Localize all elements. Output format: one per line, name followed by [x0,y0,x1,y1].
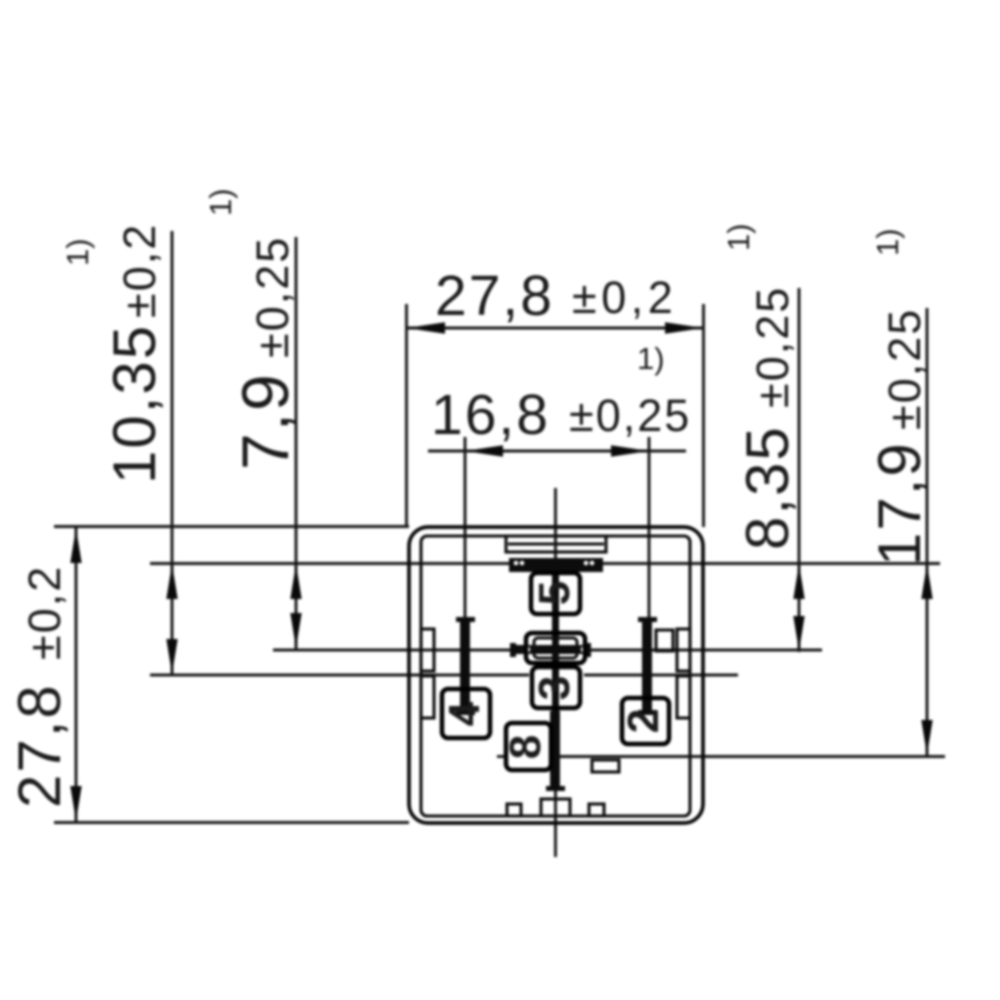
dimension 27,8 left: dim line with arrows and extension lines [54,527,409,823]
pin 1 box [506,723,551,770]
svg-text:7,9: 7,9 [228,372,302,470]
middle pin row line [273,649,822,652]
dimension 16,8: dim line with arrows and extension lines [428,437,686,620]
inner bottom tabs [507,804,521,816]
svg-text:3: 3 [530,676,579,700]
inner left slots [421,629,434,671]
svg-text:±0,2: ±0,2 [114,223,165,318]
svg-text:8: 8 [501,735,550,759]
inner right small tab [656,630,673,651]
relay body outer outline [409,527,703,823]
pin 2 box [622,698,669,744]
bottom pin row line [558,755,945,758]
svg-text:27,8: 27,8 [435,264,554,328]
middle wide box [526,633,585,663]
small keying rectangle [592,760,619,772]
svg-text:10,35: 10,35 [101,324,168,484]
middle wide box inner line [534,638,577,658]
svg-text:±0,25: ±0,25 [879,308,930,430]
vertical centerline of body [554,488,557,857]
dimension 17,9 rotated text [866,308,933,566]
dimension 27,8 top: dim line with arrows [407,304,704,527]
pin 4 box [442,689,490,738]
dimension 7,9: vertical dim line with arrows [290,237,301,649]
pin 1 blade (bottom, vertical) [546,711,565,791]
svg-text:±0,2: ±0,2 [19,565,70,660]
dimension 27,8 top: text [435,264,677,328]
inner top slot [506,536,606,552]
pin 2 blade (right, vertical) [638,617,657,715]
dimension 27,8 left rotated text [6,565,73,808]
dimension 10,35: vertical dim line with arrows [166,231,177,675]
top pin row line [150,562,940,565]
svg-text:1): 1) [637,341,665,376]
dimension 8,35 rotated text [734,286,801,550]
dimension 17,9: vertical dim line with arrows [921,308,932,756]
middle blade (horizontal) [510,643,591,657]
svg-text:4: 4 [440,701,489,726]
rivet holes in middle blade [524,646,530,652]
svg-text:1): 1) [60,238,95,266]
svg-text:16,8: 16,8 [431,383,550,447]
svg-text:1): 1) [721,223,756,251]
bottom pin row line (left dash) [497,755,506,758]
dimension 16,8: text [431,383,691,447]
horizontal centerline of body (right part) [584,674,738,677]
horizontal centerline of body (left part) [150,674,529,677]
svg-text:1): 1) [203,188,238,216]
pin 5 blade (top, horizontal) [509,558,603,572]
svg-text:±0,25: ±0,25 [247,236,298,358]
dimension 10,35 rotated text [101,223,168,484]
pin 5 box [531,573,580,614]
inner right slots [677,629,690,671]
relay body inner outline [421,536,690,816]
svg-text:5: 5 [530,581,579,605]
svg-text:27,8: 27,8 [6,683,73,808]
center blade vertical segment [552,570,559,711]
pin 4 blade (left, vertical) [456,617,475,715]
pin 3 box [532,667,580,708]
svg-text:±0,25: ±0,25 [747,286,798,408]
svg-text:±0,25: ±0,25 [569,390,691,441]
svg-text:2: 2 [619,709,668,733]
svg-text:17,9: 17,9 [866,441,933,566]
svg-text:±0,2: ±0,2 [572,272,677,323]
dimension 8,35: vertical dim line with arrows [793,288,804,652]
svg-text:1): 1) [870,228,905,256]
dimension 7,9 rotated text [228,236,302,470]
svg-text:8,35: 8,35 [734,425,801,550]
